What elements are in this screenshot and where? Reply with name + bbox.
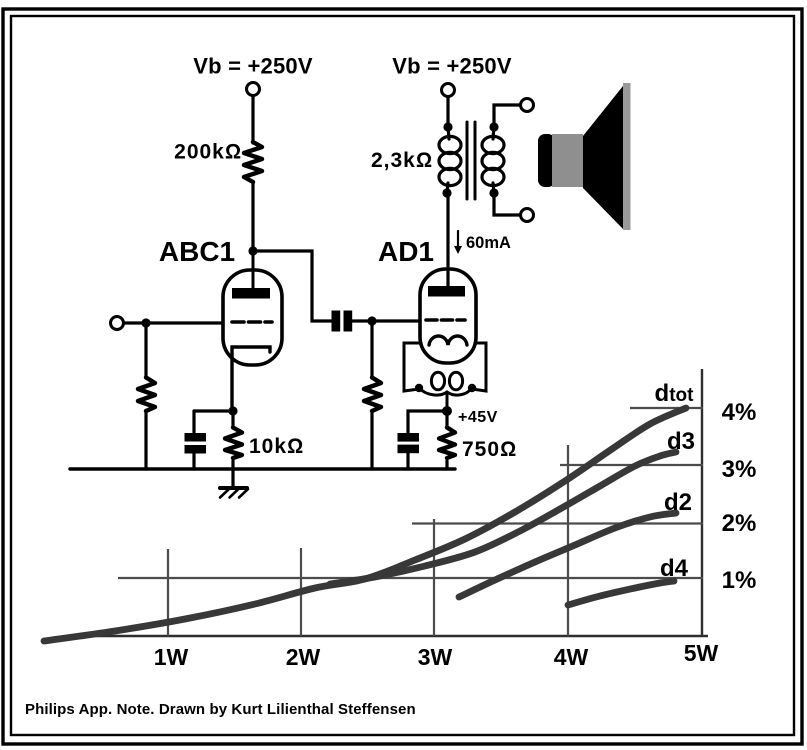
triode AD1 envelope [420, 269, 476, 363]
svg-text:dtot: dtot [655, 380, 695, 407]
gridline 2% [412, 522, 703, 524]
wire +45V to bypass branch [408, 411, 447, 434]
transformer secondary winding [482, 126, 504, 193]
curve d3 [330, 452, 676, 584]
anode lead ABC1 [252, 251, 255, 288]
y axis [701, 369, 703, 636]
capacitor cathode bypass AD1 [398, 433, 420, 453]
node grid AD1 [367, 316, 376, 325]
svg-text:2%: 2% [722, 510, 757, 537]
wire grid node AD1 down [370, 321, 373, 378]
svg-text:200kΩ: 200kΩ [174, 141, 242, 164]
node primary bottom [442, 188, 451, 197]
gridline 1% [118, 577, 703, 579]
node coil right [468, 384, 476, 392]
gridline 1W [167, 549, 169, 636]
gridline 3W [433, 519, 435, 636]
ground symbol [220, 488, 248, 498]
supply terminal Vb left [247, 83, 260, 96]
curve d2 [459, 513, 676, 597]
svg-text:AD1: AD1 [378, 236, 434, 267]
output terminal bottom [521, 209, 534, 222]
curve dtot [44, 408, 686, 641]
svg-text:3W: 3W [418, 644, 453, 670]
node grid ABC1 [141, 318, 150, 327]
wire cathode node to cap [194, 409, 233, 412]
supply terminal Vb right [442, 84, 455, 97]
wire input to ABC1 grid [124, 321, 224, 324]
svg-text:ABC1: ABC1 [159, 236, 235, 267]
node cathode ABC1 [228, 406, 237, 415]
ground stub [231, 469, 234, 487]
svg-text:d4: d4 [660, 555, 689, 582]
gridline 4W [567, 445, 569, 636]
curve d4 [568, 581, 674, 605]
svg-text:2W: 2W [286, 644, 321, 670]
speaker [538, 83, 631, 230]
cathode ABC1 [232, 347, 270, 411]
filament AD1 [429, 336, 467, 345]
svg-text:Philips App. Note. Drawn by Ku: Philips App. Note. Drawn by Kurt Lilient… [25, 701, 416, 718]
wire secondary bottom to terminal [494, 193, 520, 215]
svg-text:2,3kΩ: 2,3kΩ [371, 149, 433, 172]
svg-text:Vb = +250V: Vb = +250V [193, 54, 313, 79]
current arrow 60mA [454, 231, 462, 254]
ground bus [70, 467, 455, 470]
svg-text:1W: 1W [154, 644, 189, 670]
wire supply to transformer [446, 97, 449, 130]
input terminal [111, 317, 124, 330]
svg-text:750Ω: 750Ω [462, 438, 517, 461]
gridline 2W [300, 548, 302, 636]
transformer primary winding [439, 126, 461, 193]
wire secondary top to terminal [494, 105, 520, 126]
svg-text:60mA: 60mA [466, 234, 511, 252]
wire resistor to bus [144, 412, 147, 469]
wire primary to AD1 anode [446, 193, 449, 286]
svg-text:5W: 5W [684, 640, 719, 666]
anode plate ABC1 [232, 288, 270, 299]
filament circuit box [404, 343, 486, 391]
wire 750 to bus [445, 461, 448, 469]
wire resistor to bus [370, 412, 373, 469]
wire +45V to R 750 [445, 411, 448, 427]
hum-balance coil [419, 372, 472, 411]
x axis [68, 635, 708, 638]
wire grid node down [144, 323, 147, 378]
svg-text:4W: 4W [554, 644, 589, 670]
anode plate AD1 [428, 286, 465, 297]
grid dashes AD1 [426, 318, 465, 322]
svg-text:1%: 1% [722, 567, 757, 594]
wire cap to bus [192, 453, 195, 469]
svg-text:10kΩ: 10kΩ [249, 435, 304, 458]
resistor 10k [225, 428, 242, 459]
node secondary top [489, 122, 498, 131]
gridline 4% [630, 407, 703, 409]
resistor grid-leak ABC1 [138, 378, 155, 412]
svg-text:d3: d3 [667, 428, 695, 455]
GRAPH [68, 369, 708, 636]
gridline 3% [560, 464, 703, 466]
wire supply to R1 [251, 96, 254, 143]
grid dashes ABC1 [232, 320, 272, 324]
capacitor coupling [332, 311, 353, 332]
wire 10k to bus [231, 461, 234, 469]
triode ABC1 envelope [223, 270, 282, 365]
node secondary bottom [489, 188, 498, 197]
wire anode node to coupling cap [253, 251, 332, 321]
transformer core [467, 122, 475, 199]
svg-text:3%: 3% [722, 456, 757, 483]
node primary top [443, 122, 452, 131]
svg-text:+45V: +45V [458, 409, 498, 426]
node anode ABC1 [248, 246, 257, 255]
node coil left [415, 384, 423, 392]
svg-text:Vb = +250V: Vb = +250V [392, 54, 512, 79]
node +45V [442, 406, 452, 416]
capacitor cathode bypass ABC1 [185, 433, 207, 454]
resistor 750 [439, 428, 455, 459]
wire to bypass cap [192, 411, 195, 434]
wire cap to AD1 grid [353, 319, 421, 322]
svg-text:4%: 4% [722, 399, 757, 426]
resistor 200k [244, 142, 262, 182]
wire cap to bus [406, 453, 409, 469]
output terminal top [521, 99, 534, 112]
wire R1 to anode node [251, 183, 254, 251]
resistor grid-leak AD1 [364, 378, 381, 412]
wire cathode node to R 10k [231, 411, 234, 427]
svg-text:d2: d2 [664, 489, 692, 516]
